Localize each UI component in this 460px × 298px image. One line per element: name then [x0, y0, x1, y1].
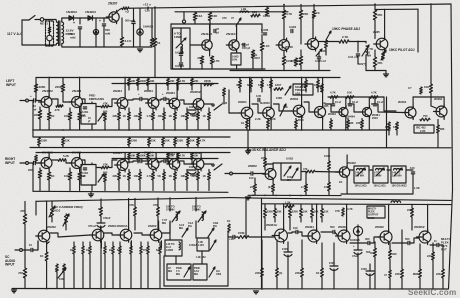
svg-text:1K: 1K — [316, 271, 319, 275]
wire Q32 emitter down2 — [287, 255, 289, 289]
svg-text:0.002: 0.002 — [286, 157, 293, 161]
wire Brow top — [289, 204, 291, 208]
w — [197, 170, 199, 173]
transistor Q20 — [260, 106, 274, 121]
wire SCT right — [227, 232, 229, 286]
pot body pilot — [382, 52, 385, 60]
svg-text:4.7K: 4.7K — [200, 139, 206, 143]
wire Q32 emitter down — [287, 242, 289, 252]
wire rail R2 — [112, 158, 218, 160]
junction — [283, 4, 285, 6]
wire Brow bottom — [300, 218, 302, 223]
capacitor 47uF B — [354, 250, 362, 254]
w — [37, 241, 39, 250]
transistor Q6 pilot — [374, 37, 388, 52]
wire Q20-Q21 link — [274, 104, 292, 111]
resistor 220K Brow — [289, 209, 292, 218]
wire q5c — [300, 65, 302, 71]
wire lamp top — [49, 21, 51, 35]
w — [437, 133, 439, 148]
trimmer pilot adj — [381, 50, 386, 60]
resistor 150K — [238, 236, 249, 239]
svg-text:38 KC BALANCE ADJ: 38 KC BALANCE ADJ — [252, 148, 286, 152]
svg-text:3.3 K: 3.3 K — [125, 39, 133, 43]
wire to divider — [197, 145, 199, 147]
capacitor input 10mf — [34, 99, 36, 102]
w — [305, 172, 307, 185]
w — [152, 170, 154, 173]
trimmer K1 — [284, 166, 291, 176]
w — [401, 230, 403, 269]
resistor 30K Lbot — [187, 138, 190, 146]
svg-text:10K: 10K — [64, 174, 69, 178]
wire q6 out — [384, 48, 386, 50]
resistor 1K K — [272, 184, 275, 192]
resistor 10K em L — [139, 112, 142, 120]
w — [357, 236, 359, 250]
svg-text:470 uf: 470 uf — [88, 224, 96, 228]
resistor 1K SCb — [100, 207, 103, 216]
svg-text:0.0012: 0.0012 — [189, 244, 197, 247]
wire to divider — [128, 145, 130, 147]
wire Q9 collector — [124, 78, 126, 98]
svg-text:22K: 22K — [250, 185, 255, 189]
lamp NE-51 — [47, 35, 53, 41]
switch R out — [214, 164, 222, 170]
svg-text:1K: 1K — [123, 174, 126, 178]
resistor 10K emR — [186, 172, 189, 180]
wire q6 e — [374, 50, 376, 57]
w — [51, 217, 53, 222]
w — [261, 78, 263, 81]
inductor box 1 S38 — [354, 166, 369, 183]
wire em down — [208, 120, 210, 130]
resistor 47K preR — [101, 166, 109, 169]
wire osc bottom rail — [171, 68, 265, 70]
wire K bus y195 — [248, 194, 341, 196]
svg-text:2N4124: 2N4124 — [226, 32, 237, 36]
wire c down2 — [318, 59, 320, 71]
resistor 22K Bc — [261, 268, 264, 277]
w — [119, 242, 121, 246]
capacitor C1 500mfd — [78, 27, 81, 29]
w — [246, 128, 248, 130]
w — [128, 170, 130, 173]
wire cap down — [357, 56, 359, 64]
resistor 10K biasR — [167, 153, 170, 160]
wire Q23 collector up — [345, 97, 347, 107]
svg-text:2.2K: 2.2K — [420, 129, 426, 133]
svg-text:4K: 4K — [236, 83, 239, 87]
resistor 100K Kb — [328, 182, 331, 191]
junction x246 — [245, 236, 247, 238]
transistor Q36 — [417, 230, 432, 245]
w — [159, 254, 161, 289]
svg-text:17 MH: 17 MH — [374, 175, 382, 178]
svg-text:0.0068: 0.0068 — [175, 64, 184, 68]
w — [63, 272, 65, 289]
w — [163, 170, 165, 173]
resistor 10 SCem — [89, 246, 92, 254]
wire 2.7K to node — [349, 41, 358, 43]
transistor Q15 — [115, 158, 128, 172]
resistor 22K Mem — [361, 120, 364, 128]
trimmer L1C — [184, 267, 190, 277]
w — [142, 161, 148, 164]
w — [112, 254, 114, 289]
resistor 820 emR — [197, 172, 200, 180]
svg-text:4.7K: 4.7K — [214, 59, 221, 63]
svg-text:1K: 1K — [123, 114, 126, 118]
svg-text:IRC 452: IRC 452 — [416, 126, 426, 130]
wire drop x155 lower — [154, 47, 156, 78]
wire Q9-Q10 — [128, 99, 140, 100]
svg-text:(K): (K) — [268, 185, 272, 189]
trimmer C1B — [208, 228, 214, 237]
wire M res down — [261, 88, 263, 92]
svg-text:300: 300 — [365, 237, 370, 241]
IRC box — [414, 125, 434, 133]
svg-text:2N464A: 2N464A — [266, 223, 278, 227]
wire em top — [118, 108, 120, 112]
wire K coll node — [265, 163, 273, 164]
resistor 1K SC — [45, 252, 48, 261]
resistor 1.2K B — [285, 205, 294, 208]
svg-text:330: 330 — [392, 252, 397, 256]
resistor 10K Mem — [330, 120, 333, 128]
wire to input node — [35, 92, 37, 101]
w — [321, 231, 333, 233]
capacitor 500 B2 — [333, 230, 335, 233]
w — [137, 160, 139, 164]
wire Q5 collector — [312, 16, 314, 38]
transistor Q17 — [167, 157, 180, 171]
wire em down — [152, 120, 154, 130]
svg-text:10K: 10K — [347, 91, 352, 95]
wire to box1 — [350, 169, 355, 171]
svg-text:1K: 1K — [40, 254, 43, 258]
wire down — [252, 58, 254, 69]
trimmer arrow osc tank — [236, 18, 241, 26]
resistor 1K Mem — [246, 120, 249, 128]
wire to Q4 — [283, 19, 285, 40]
svg-text:10K: 10K — [131, 79, 136, 83]
wire Q24 collector up — [368, 97, 370, 107]
wire Q14 coll — [79, 153, 81, 158]
w — [79, 169, 81, 173]
wire L1 top — [180, 28, 182, 42]
wire bias down — [167, 86, 169, 91]
capacitor 0.005 — [263, 33, 266, 35]
inductor L1 coil — [181, 44, 183, 53]
svg-text:1K: 1K — [70, 249, 73, 252]
wire Q12 collector — [200, 84, 202, 99]
w — [201, 251, 203, 264]
resistor 22K Lbot — [148, 138, 151, 146]
wire preR to Q15 — [109, 160, 117, 168]
junction — [283, 203, 285, 205]
wire rail y70 T2 — [366, 70, 375, 72]
wire M right rail — [413, 96, 444, 98]
wire stub — [128, 78, 130, 79]
w — [104, 254, 106, 289]
wire node to coil — [358, 41, 366, 43]
ground pilot — [383, 74, 388, 77]
wire K stub — [225, 173, 230, 175]
wire left column x33 — [32, 101, 34, 138]
wire pot down — [325, 48, 327, 55]
wire em down — [139, 120, 141, 130]
svg-text:750: 750 — [423, 114, 428, 118]
w — [208, 180, 210, 191]
wire Q19 emitter down — [249, 119, 251, 130]
svg-text:1K: 1K — [203, 114, 206, 118]
w — [169, 221, 171, 240]
terminal right input — [26, 162, 29, 165]
svg-text:+(2: +(2 — [125, 10, 129, 14]
svg-text:22K: 22K — [255, 271, 260, 275]
wire Brow bottom — [321, 218, 323, 223]
resistor 120 — [251, 14, 260, 17]
svg-text:LORO: LORO — [166, 249, 173, 252]
svg-text:4.7K: 4.7K — [371, 91, 377, 95]
svg-text:620: 620 — [117, 249, 122, 252]
inductor box 2 S38 — [373, 166, 388, 183]
wire to Q6 — [374, 20, 376, 39]
svg-text:22K: 22K — [436, 272, 441, 276]
wire pre to Q9 — [109, 99, 117, 107]
wire Q25 coll — [412, 97, 414, 107]
w — [430, 93, 432, 106]
w — [79, 180, 81, 191]
resistor 31K Brow — [321, 209, 324, 218]
resistor 5 ohm — [150, 38, 153, 46]
svg-text:+: + — [353, 244, 355, 248]
resistor 50 b — [63, 264, 66, 272]
svg-text:2N464: 2N464 — [113, 151, 122, 155]
svg-text:4.7K: 4.7K — [180, 154, 186, 158]
wire rc down — [62, 92, 64, 97]
svg-text:MH: MH — [162, 221, 166, 225]
transistor Q19 — [239, 106, 253, 121]
diode D2 — [88, 16, 93, 20]
resistor 10K T3 — [294, 58, 297, 66]
w — [140, 254, 142, 289]
wire Q31 emitter down — [160, 241, 162, 248]
resistor 1K emR — [208, 172, 211, 180]
wire bias down — [137, 86, 139, 91]
resistor 2.2K Mem — [267, 120, 270, 128]
w — [401, 278, 403, 289]
svg-text:10%: 10% — [232, 58, 238, 62]
wire Q20 collector up — [270, 78, 272, 108]
wire Q10-Q11 — [157, 99, 164, 100]
wire emitter res down — [201, 64, 203, 69]
zener D4 1N4025 — [137, 27, 143, 36]
wire Q27 coll up — [346, 155, 348, 167]
svg-text:100: 100 — [249, 176, 254, 180]
wire SC box top line — [36, 198, 230, 202]
resistor 10K emR — [139, 172, 142, 180]
wire re down — [48, 120, 50, 130]
svg-text:47K: 47K — [377, 13, 383, 17]
wire Q21 collector up — [301, 78, 303, 106]
wire Q30 emitter down — [130, 241, 132, 248]
wire to Q26 base — [431, 106, 436, 108]
resistor 680 pre — [104, 113, 107, 121]
w — [298, 232, 307, 236]
svg-text:500(?): 500(?) — [358, 62, 366, 66]
terminal SC input — [20, 249, 23, 252]
svg-text:2.7K: 2.7K — [342, 35, 349, 39]
wire stub — [137, 78, 139, 79]
wire SCT bottom — [164, 285, 228, 287]
svg-text:100: 100 — [293, 226, 298, 230]
wire Q3 emitter — [236, 51, 238, 53]
transformer T1 secondary — [62, 22, 64, 44]
wire coil down — [365, 55, 367, 71]
svg-text:GAIN: GAIN — [368, 217, 374, 220]
svg-text:2N4124: 2N4124 — [201, 32, 212, 36]
wire SCT left — [163, 256, 165, 286]
svg-text:2N4052: 2N4052 — [42, 89, 53, 93]
resistor 22K K2 — [254, 184, 257, 192]
wire bias Q5 — [300, 19, 302, 44]
wire Brow top — [321, 204, 323, 208]
wire to divider — [174, 145, 176, 147]
w — [48, 180, 50, 191]
resistor 4.7K Lbot — [197, 138, 200, 146]
wire coil top — [365, 42, 367, 44]
wire Q26 coll — [443, 97, 445, 106]
svg-text:4.7K: 4.7K — [147, 174, 153, 178]
wire drop x36 SC — [35, 201, 37, 215]
transistor Q4 — [276, 38, 289, 52]
wire em top — [152, 108, 154, 112]
svg-text:22K: 22K — [28, 168, 33, 172]
coil L2 — [240, 11, 248, 12]
transformer T1 primary — [57, 22, 59, 44]
wire x133 down — [133, 8, 135, 21]
resistor 4.7K Mc2 — [370, 96, 378, 99]
wire node down — [357, 42, 359, 53]
w — [177, 160, 179, 164]
capacitor interstage L2 — [164, 97, 166, 100]
wire Q10 collector — [155, 84, 157, 98]
wire C3 down — [133, 24, 135, 47]
wire em top — [197, 108, 199, 112]
svg-text:10K: 10K — [165, 139, 170, 143]
capacitor input R — [34, 161, 36, 164]
wire rb down — [39, 119, 41, 130]
junction — [48, 77, 50, 79]
capacitor 0.005 mf — [317, 57, 320, 59]
wire Q34 coll — [346, 204, 348, 230]
junction — [388, 204, 390, 206]
svg-text:500: 500 — [330, 225, 335, 229]
wire q8 base — [62, 97, 64, 102]
w — [321, 243, 323, 268]
w — [250, 78, 252, 81]
transformer box L1C — [167, 264, 191, 280]
wire bias down — [177, 86, 179, 91]
svg-text:1500: 1500 — [361, 267, 367, 271]
w — [264, 222, 266, 230]
resistor 5.2K — [58, 159, 66, 162]
pot SC freq — [51, 207, 54, 217]
svg-text:2N4052: 2N4052 — [414, 225, 425, 229]
w — [328, 170, 330, 172]
w — [347, 119, 349, 121]
wire matrix gnd drop — [247, 130, 249, 149]
wire Q31 coll — [158, 221, 160, 229]
wire em down — [118, 120, 120, 130]
wire Q37 coll up — [272, 164, 274, 168]
transistor Q31 — [148, 228, 162, 243]
wire to divider — [148, 145, 150, 147]
w — [301, 240, 303, 268]
w — [317, 78, 319, 81]
svg-text:13K: 13K — [385, 125, 390, 129]
resistor 1K L — [47, 112, 50, 120]
resistor 100 Le — [78, 112, 81, 120]
w — [328, 148, 330, 161]
w — [118, 170, 120, 173]
w — [374, 242, 376, 248]
resistor 10K osc — [193, 13, 196, 21]
svg-text:L+R: L+R — [222, 101, 227, 105]
wire Q35 coll — [388, 205, 390, 232]
svg-text:100 uf: 100 uf — [189, 165, 197, 169]
junction — [321, 288, 323, 290]
capacitor 0.003 T — [291, 29, 293, 32]
svg-text:2.7K: 2.7K — [301, 185, 307, 189]
wire caps bottom — [180, 65, 182, 69]
w — [254, 178, 256, 184]
resistor M80 — [419, 269, 422, 278]
wire M res down — [317, 88, 319, 92]
terminal osc rail — [182, 20, 185, 23]
svg-text:10/500: 10/500 — [190, 113, 198, 117]
capacitor SC input — [31, 248, 33, 251]
w — [254, 192, 256, 195]
svg-text:-12v: -12v — [144, 9, 150, 13]
resistor 3.3K — [120, 37, 123, 46]
capacitor 100pf interstage — [243, 43, 245, 46]
svg-text:10K: 10K — [150, 79, 155, 83]
w — [65, 224, 67, 230]
junction — [32, 129, 34, 131]
wire q6 e2 — [374, 67, 376, 71]
capacitor interstage R2 — [164, 159, 166, 162]
junction — [261, 288, 263, 290]
svg-text:INPUT: INPUT — [5, 263, 15, 267]
w — [152, 180, 154, 191]
capacitor 1500 B2 — [366, 271, 374, 275]
w — [442, 278, 444, 289]
wire M res down — [305, 88, 307, 92]
resistor 10K biasR — [147, 153, 150, 160]
svg-text:C?: C? — [408, 86, 412, 90]
svg-text:+: + — [138, 92, 140, 96]
wire to divider — [62, 145, 64, 147]
trimmer SC freq — [49, 206, 55, 217]
wire to divider — [162, 145, 164, 147]
svg-text:220K: 220K — [55, 85, 63, 89]
svg-text:5K: 5K — [158, 174, 161, 178]
trimmer arrow L1 — [176, 38, 186, 48]
wire to divider — [38, 145, 40, 147]
